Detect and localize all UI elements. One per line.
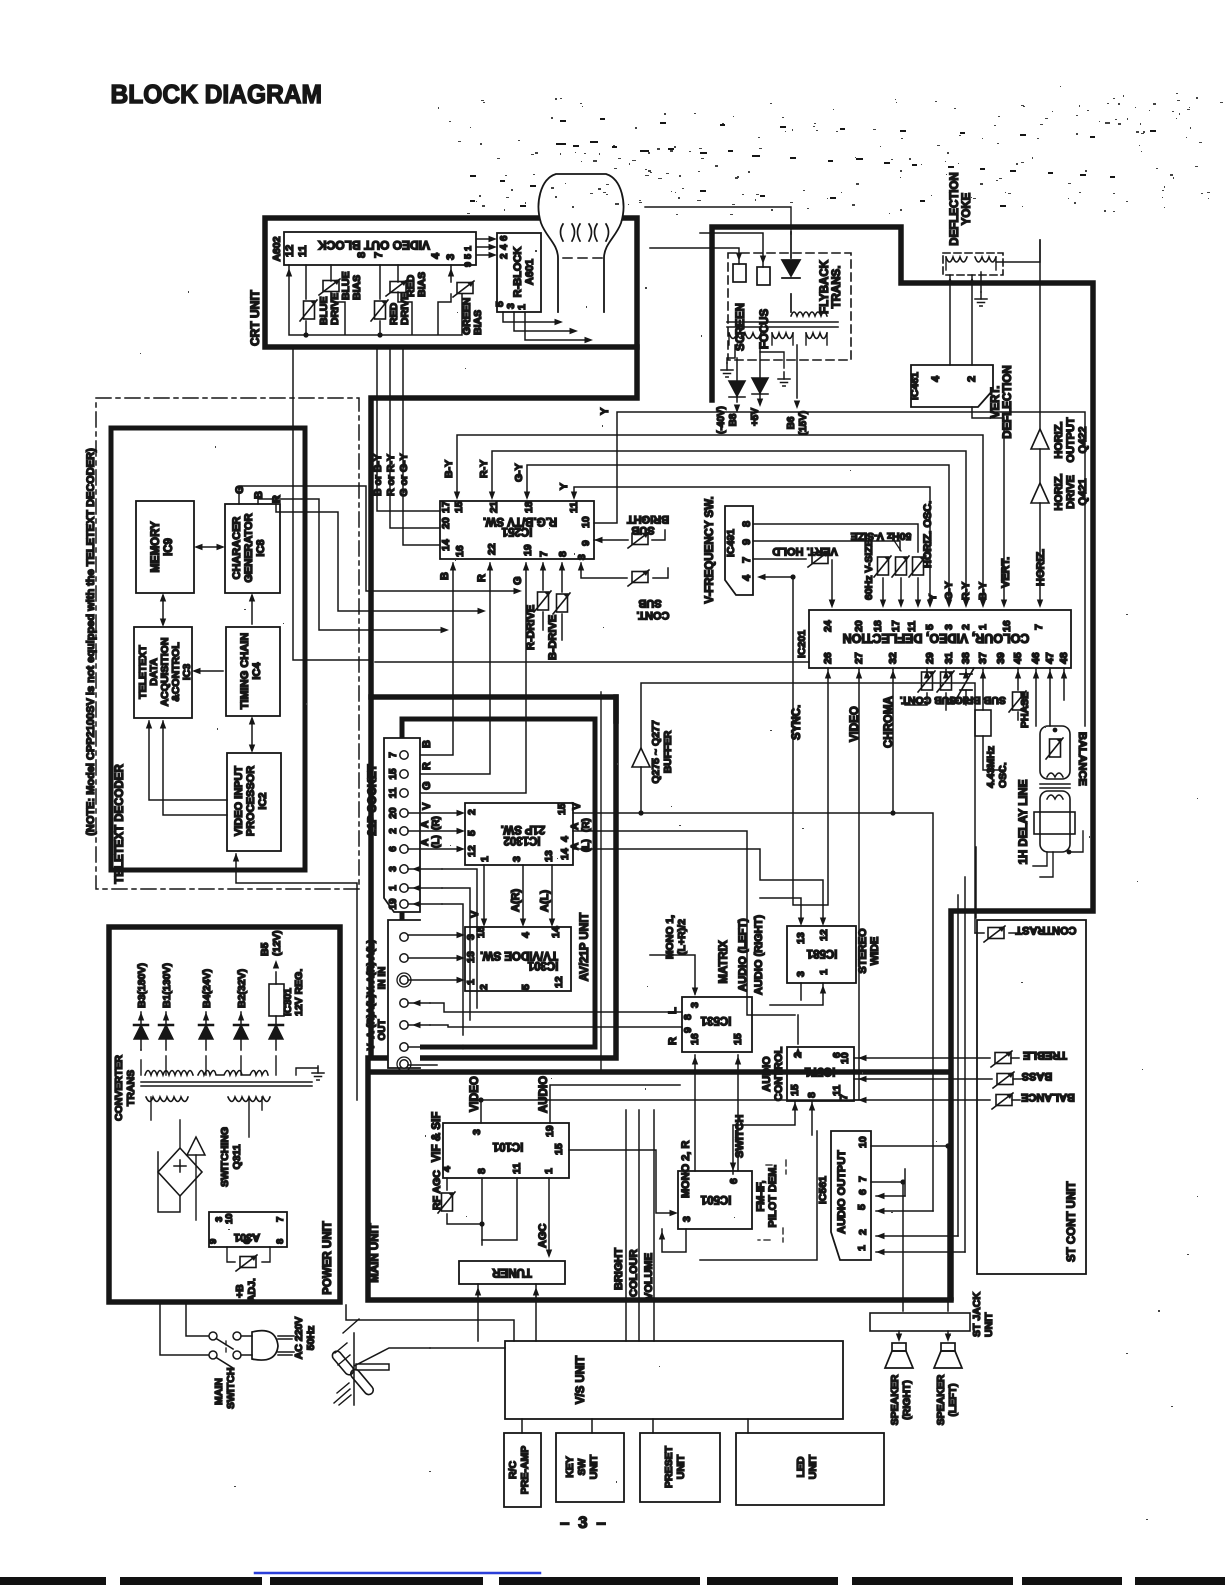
svg-text:39: 39: [995, 652, 1007, 664]
potentiometer HORIZ. OSC.: [909, 556, 926, 577]
wire into IC491 pin4 arrow from sync: [829, 600, 835, 609]
speaker right: [898, 1331, 900, 1336]
svg-text:V: V: [421, 802, 433, 810]
svg-text:MATRIX: MATRIX: [718, 940, 730, 984]
node 21P socket pin 2: [400, 827, 408, 835]
scan speckle noise top band: [140, 86, 1223, 1520]
svg-text:CHROMA: CHROMA: [883, 696, 895, 748]
svg-text:POWER UNIT: POWER UNIT: [322, 1221, 334, 1294]
svg-text:5: 5: [924, 624, 936, 630]
diode B3(180V): [140, 1012, 142, 1050]
wire Y IC251 pin11 to IC201 pin5: [574, 487, 930, 603]
svg-text:29: 29: [924, 652, 936, 664]
node 21P socket pin 1: [400, 884, 408, 892]
node AV out jack pin: [400, 1043, 408, 1051]
potentiometer BASS: [993, 1072, 1014, 1088]
wire AUDIO from IC101 pin19: [550, 1085, 680, 1123]
scan edge bottom black strip: [0, 1577, 1225, 1585]
svg-text:AUDIO: AUDIO: [761, 1056, 773, 1092]
svg-text:11: 11: [297, 245, 309, 257]
svg-text:DEFLECTION: DEFLECTION: [949, 172, 961, 245]
svg-text:15: 15: [553, 1143, 565, 1155]
svg-text:(R): (R): [431, 816, 442, 830]
svg-text:(15V): (15V): [798, 411, 809, 435]
svg-text:19: 19: [522, 544, 534, 556]
converter transformer windings: [145, 1071, 193, 1076]
wires socket feedback pins 3 1 19: [408, 869, 442, 904]
svg-text:IC9: IC9: [163, 538, 175, 556]
svg-text:12V REG.: 12V REG.: [293, 969, 305, 1016]
node 21P socket pin 3: [400, 865, 408, 873]
potentiometer CONTRAST: [975, 932, 1020, 934]
wire G or G-Y into IC251 left: [403, 347, 440, 545]
svg-text:+B: +B: [234, 1284, 246, 1298]
node AV out jack pin: [400, 976, 408, 984]
svg-text:G-Y: G-Y: [513, 463, 525, 482]
CRT tube drawing: [539, 174, 624, 312]
svg-text:9: 9: [682, 1027, 694, 1033]
potentiometer BALANCE: [992, 1093, 1013, 1109]
svg-text:MAIN UNIT: MAIN UNIT: [369, 1223, 381, 1282]
svg-text:VIF & SIF: VIF & SIF: [431, 1112, 443, 1162]
svg-text:IC491: IC491: [725, 529, 737, 557]
svg-text:VIDEO OUT BLOCK: VIDEO OUT BLOCK: [318, 238, 430, 252]
block IC561 AUDIO OUTPUT: [831, 1131, 871, 1260]
block IC101 VIF & SIF: [443, 1123, 569, 1178]
wire chargen G to IC251 G line: [239, 486, 517, 591]
wires video out block pins down to pots and bus: [289, 265, 462, 335]
block IC581 STEREO WIDE: [787, 926, 856, 983]
svg-text:R-Y: R-Y: [478, 460, 490, 478]
svg-text:1: 1: [479, 856, 491, 862]
svg-text:1: 1: [463, 246, 473, 251]
node 21P socket pin 15: [400, 770, 408, 778]
svg-text:21P SW.: 21P SW.: [501, 823, 546, 835]
svg-text:15: 15: [388, 768, 399, 780]
svg-text:B8: B8: [728, 413, 739, 426]
svg-text:– 3 –: – 3 –: [560, 1513, 608, 1532]
diode to B8: [736, 358, 738, 380]
diode B4(24V): [205, 1012, 207, 1050]
svg-text:TELETEXT DECODER: TELETEXT DECODER: [114, 764, 126, 884]
svg-text:2: 2: [857, 1229, 869, 1235]
svg-text:4: 4: [499, 244, 510, 250]
svg-text:A: A: [420, 839, 431, 846]
block V/S UNIT: [505, 1341, 843, 1419]
svg-text:HORIZ.: HORIZ.: [1053, 421, 1065, 458]
svg-text:45: 45: [1012, 652, 1024, 664]
wires IC571 bottom pins: [733, 1101, 812, 1174]
svg-text:10: 10: [224, 1213, 235, 1224]
svg-text:B or B-Y: B or B-Y: [372, 454, 384, 496]
svg-text:A: A: [420, 821, 431, 828]
svg-text:50Hz V-SIZE: 50Hz V-SIZE: [851, 530, 912, 542]
antenna: [354, 1333, 430, 1405]
svg-text:PRESET: PRESET: [663, 1445, 675, 1488]
svg-text:WIDE: WIDE: [869, 937, 881, 966]
svg-text:(L): (L): [431, 835, 442, 848]
block IC201 COLOUR, VIDEO, DEFLECTION: [809, 610, 1071, 668]
svg-text:HORIZ. OSC.: HORIZ. OSC.: [922, 501, 934, 568]
svg-text:13: 13: [795, 932, 807, 944]
svg-text:6: 6: [242, 1239, 253, 1244]
svg-text:20: 20: [853, 620, 865, 632]
svg-text:COLOUR, VIDEO, DEFLECTION: COLOUR, VIDEO, DEFLECTION: [843, 631, 1030, 645]
wire G-Y staircase IC251 pin18 to IC201 pin3: [527, 465, 949, 603]
svg-text:SUB: SUB: [631, 524, 654, 536]
svg-text:IC501: IC501: [700, 1193, 731, 1205]
svg-text:60Hz V-SIZE: 60Hz V-SIZE: [863, 539, 875, 600]
svg-text:IN IN: IN IN: [377, 967, 388, 990]
svg-text:R-DRIVE: R-DRIVE: [525, 605, 537, 650]
svg-text:7: 7: [857, 1176, 869, 1182]
block IC251 R.G.B/TV SW.: [440, 501, 594, 559]
svg-text:PRE-AMP: PRE-AMP: [519, 1446, 531, 1494]
svg-text:SPEAKER: SPEAKER: [935, 1374, 947, 1425]
svg-text:4: 4: [741, 574, 753, 581]
svg-text:AUDIO OUTPUT: AUDIO OUTPUT: [836, 1150, 848, 1234]
transistor Q421 HORIZ DRIVE amp: [1031, 483, 1049, 503]
svg-text:VERT. HOLD: VERT. HOLD: [772, 545, 837, 557]
svg-text:2: 2: [478, 984, 490, 990]
diode HV rectifier: [790, 232, 792, 312]
svg-text:14: 14: [440, 539, 452, 551]
wire timing chain to chargen arrow: [251, 596, 253, 624]
svg-text:TRANS.: TRANS.: [831, 266, 843, 309]
svg-text:DRIVE: DRIVE: [1065, 475, 1077, 509]
svg-text:47: 47: [1044, 652, 1056, 664]
transistor Q275-Q277 BUFFER: [641, 683, 975, 933]
svg-text:AUDIO: AUDIO: [538, 1076, 550, 1113]
block PRESET UNIT: [640, 1433, 720, 1502]
svg-text:IC8: IC8: [255, 539, 267, 556]
node AV out jack pin: [400, 933, 408, 941]
svg-text:BRIGHT: BRIGHT: [613, 1248, 625, 1290]
svg-text:PROCESSOR: PROCESSOR: [245, 766, 257, 836]
svg-text:AUDIO (RIGHT): AUDIO (RIGHT): [753, 915, 765, 995]
svg-text:BASS: BASS: [1022, 1070, 1053, 1082]
svg-text:4: 4: [559, 836, 571, 842]
wire R from AV unit to IC251 pin22: [403, 563, 490, 774]
potentiometer PHASE at IC201 pin45: [1017, 668, 1019, 720]
svg-text:B-Y: B-Y: [977, 582, 989, 600]
dashed outline: teletext option dash-dot box: [96, 398, 359, 889]
svg-text:48: 48: [1058, 652, 1070, 664]
wire timing chain to IC2 double arrow: [251, 719, 253, 750]
svg-text:B4(24V): B4(24V): [201, 969, 213, 1008]
svg-text:3: 3: [511, 856, 523, 862]
svg-text:12: 12: [466, 845, 478, 857]
node AV out jack pin: [400, 999, 408, 1007]
svg-text:(R): (R): [581, 818, 592, 832]
svg-text:1: 1: [818, 969, 830, 975]
svg-text:IC581: IC581: [806, 947, 837, 959]
svg-text:R-BLOCK: R-BLOCK: [512, 247, 524, 298]
wire IC101 pin15 to IC501: [569, 1150, 673, 1213]
wire B or B-Y into IC251 left: [377, 347, 440, 511]
svg-text:Y: Y: [599, 407, 611, 415]
svg-text:21: 21: [488, 501, 500, 513]
svg-text:HORIZ.: HORIZ.: [1053, 473, 1065, 510]
block MEMORY IC9: [136, 501, 194, 593]
svg-text:Q421: Q421: [1077, 479, 1089, 506]
svg-text:VIDEO INPUT: VIDEO INPUT: [233, 766, 245, 837]
wire V line from IC1302 right: [573, 813, 933, 1211]
bridge rectifier: [158, 1148, 202, 1196]
svg-text:SWITCH: SWITCH: [734, 1115, 746, 1158]
wire VIDEO from IC101 to IC201 pin27: [481, 668, 859, 1100]
block ST JACK UNIT: [870, 1313, 970, 1331]
svg-text:4: 4: [520, 932, 532, 938]
svg-text:1: 1: [543, 1168, 555, 1174]
svg-text:(NOTE: Model CPP2100SV is not: (NOTE: Model CPP2100SV is not equipped w…: [85, 448, 97, 836]
arrow to B6 (15V): [796, 345, 798, 398]
unit border: AV/21P ring: [371, 697, 616, 1058]
svg-text:2: 2: [792, 1052, 804, 1058]
block VIDEO INPUT PROCESSOR IC2: [227, 753, 281, 851]
svg-text:1: 1: [516, 304, 528, 310]
potentiometer RED DRIVE: [371, 300, 388, 321]
svg-text:3: 3: [388, 866, 399, 872]
svg-text:V: V: [571, 802, 583, 810]
svg-text:AC 220V: AC 220V: [293, 1317, 305, 1360]
ground converter: [312, 1066, 324, 1080]
svg-text:B: B: [421, 740, 433, 748]
svg-text:A601: A601: [524, 259, 536, 285]
svg-text:CONTRAST: CONTRAST: [1015, 924, 1076, 936]
wires IC201 pins 46 47 to delay line: [1036, 668, 1050, 726]
svg-text:R or R-Y: R or R-Y: [385, 454, 397, 496]
svg-text:18: 18: [523, 501, 535, 513]
svg-text:6: 6: [857, 1189, 869, 1195]
wires IC561 outputs to ST JACK: [871, 1146, 948, 1311]
wire HORIZ line with drive amps: [1039, 240, 1041, 603]
svg-text:Y: Y: [927, 594, 939, 601]
main switch: [160, 1302, 208, 1355]
svg-text:10: 10: [839, 1052, 851, 1064]
wires audio out lines: [408, 1003, 430, 1025]
wire EHT flyback to CRT: [645, 207, 791, 234]
svg-text:10: 10: [580, 516, 592, 528]
svg-text:12: 12: [284, 245, 296, 257]
wire IC491 pin9 to 50Hz V-SIZE pot: [753, 541, 900, 550]
potentiometer SUB CONT at IC251 pin3: [581, 563, 668, 578]
block AV out jack connector: [388, 920, 420, 1068]
wire IC491 pin8 to HORIZ OSC pot: [753, 524, 918, 552]
wire timing chain to IC3 arrow: [195, 670, 223, 672]
svg-text:11: 11: [388, 787, 399, 798]
svg-text:38: 38: [960, 652, 972, 664]
svg-text:7: 7: [388, 752, 399, 758]
block ST CONT UNIT: [977, 920, 1086, 1274]
wires into IC561 right pins: [876, 1196, 965, 1252]
wires IC2 to IC3: [149, 721, 227, 815]
wire B-Y staircase IC251 pin15 to IC201 pin1: [457, 435, 983, 603]
svg-text:3: 3: [576, 554, 588, 560]
svg-text:SW: SW: [576, 1458, 588, 1475]
flyback transformer windings: [791, 312, 827, 316]
svg-text:(12V): (12V): [271, 930, 283, 956]
svg-text:AUDIO (LEFT): AUDIO (LEFT): [737, 918, 749, 992]
svg-text:17: 17: [440, 501, 452, 513]
svg-text:18: 18: [872, 620, 884, 632]
wire R or R-Y into IC251 left: [390, 347, 440, 528]
potentiometer SUB BRIGT at IC201 pin31: [945, 668, 947, 710]
wire IC491 pin7 to VERT HOLD pot: [753, 558, 806, 560]
svg-text:ST CONT UNIT: ST CONT UNIT: [1066, 1182, 1078, 1263]
svg-text:B1(130V): B1(130V): [161, 963, 173, 1008]
svg-text:7: 7: [1033, 624, 1045, 630]
svg-text:2: 2: [966, 376, 978, 382]
block IC571 AUDIO CONTROL: [787, 1047, 854, 1101]
wires IC531 bottom pins MONO2 SWITCH: [695, 1055, 738, 1171]
svg-text:FLYBACK: FLYBACK: [819, 259, 831, 314]
svg-text:CONTROL: CONTROL: [773, 1047, 785, 1102]
potentiometer TREBLE: [991, 1051, 1012, 1067]
potentiometer 50Hz V-SIZE: [892, 556, 909, 577]
svg-text:8: 8: [806, 1092, 818, 1098]
svg-text:BIAS: BIAS: [416, 272, 428, 297]
audio section box: [700, 1131, 817, 1260]
svg-text:R: R: [271, 495, 283, 503]
svg-text:OUTPUT: OUTPUT: [1065, 417, 1077, 463]
svg-text:8: 8: [275, 1239, 286, 1244]
svg-text:+5V: +5V: [750, 408, 761, 426]
svg-text:V: V: [469, 910, 481, 918]
svg-text:BIAS: BIAS: [472, 310, 484, 335]
svg-text:9: 9: [580, 540, 592, 546]
svg-text:IC3: IC3: [181, 664, 193, 681]
svg-text:(LEFT): (LEFT): [947, 1383, 959, 1416]
node AV out jack pin: [400, 1060, 408, 1068]
svg-text:1: 1: [977, 624, 989, 630]
wire beam current from CRT unit: [293, 347, 371, 660]
wire video input to IC2: [236, 854, 357, 1100]
block A301: [209, 1212, 287, 1247]
svg-text:SUB BRIGT: SUB BRIGT: [948, 694, 1006, 706]
svg-text:V- A-(R)A(L)V. A(R) A(L): V- A-(R)A(L)V. A(R) A(L): [366, 940, 377, 1051]
svg-text:15: 15: [789, 1084, 801, 1096]
svg-text:SPEAKER: SPEAKER: [889, 1374, 901, 1425]
svg-text:IC1302: IC1302: [503, 834, 540, 846]
potentiometer R-DRIVE at IC251 pin7: [542, 563, 544, 630]
svg-text:2: 2: [499, 253, 510, 259]
svg-text:IC301: IC301: [527, 959, 558, 971]
wire CHROMA from IC201 pin32: [892, 668, 894, 813]
wire IC501 pin3 loop: [662, 1229, 686, 1252]
block A602 VIDEO OUT BLOCK: [284, 232, 476, 265]
wire MONO1 into IC531 pin3: [650, 955, 695, 994]
wires into screen and focus: [650, 233, 763, 267]
svg-text:11: 11: [906, 621, 918, 632]
block IC531 MATRIX: [682, 997, 752, 1052]
svg-text:ADJ.: ADJ.: [246, 1278, 258, 1302]
svg-text:10: 10: [857, 1136, 869, 1148]
block IC501 FM-IF PILOT DEM: [678, 1171, 752, 1229]
svg-text:15: 15: [732, 1033, 744, 1045]
svg-text:IC4: IC4: [251, 662, 263, 680]
svg-text:31: 31: [943, 652, 955, 664]
block LED UNIT: [736, 1433, 884, 1505]
svg-text:UNIT: UNIT: [807, 1454, 819, 1479]
unit border: CRT UNIT thick box: [265, 218, 637, 347]
svg-text:BALANCE: BALANCE: [1021, 1091, 1075, 1103]
svg-text:A(L): A(L): [539, 890, 551, 912]
svg-text:CHARACER: CHARACER: [231, 516, 243, 579]
svg-text:BLOCK DIAGRAM: BLOCK DIAGRAM: [111, 80, 322, 109]
wire long horizontal under IC201: [375, 661, 809, 663]
wire memory to chargen double arrow: [197, 546, 222, 548]
node 21P socket pin 6: [400, 845, 408, 853]
wires BRIGHT COLOUR VOLUME: [626, 1110, 654, 1341]
svg-text:R: R: [421, 762, 433, 770]
svg-text:COLOUR: COLOUR: [628, 1249, 640, 1297]
svg-text:15: 15: [453, 501, 465, 513]
potentiometer RED BIAS: [386, 280, 407, 296]
block TUNER: [459, 1261, 565, 1284]
svg-text:VOLUME: VOLUME: [643, 1253, 655, 1300]
unit border: AV/21P UNIT box: [402, 719, 595, 1047]
svg-text:8: 8: [356, 252, 368, 258]
potentiometer BLUE DRIVE: [300, 300, 317, 321]
svg-text:SYNC.: SYNC.: [791, 705, 803, 740]
svg-text:VIDEO: VIDEO: [469, 1076, 481, 1112]
1H delay line assembly with BALANCE pot: [1040, 726, 1070, 779]
svg-text:16: 16: [689, 1033, 701, 1045]
svg-text:8: 8: [557, 551, 569, 557]
svg-text:R/C: R/C: [507, 1461, 519, 1480]
svg-text:R: R: [476, 574, 488, 582]
block CHARACER GENERATOR IC8: [225, 504, 280, 593]
wires A602 to A601 with arrows: [477, 239, 492, 255]
ground flyback left: [721, 363, 733, 377]
svg-text:ST JACK: ST JACK: [971, 1292, 983, 1337]
svg-text:OSC.: OSC.: [997, 762, 1009, 788]
svg-text:TIMING CHAIN: TIMING CHAIN: [239, 633, 251, 709]
svg-text:IC461: IC461: [909, 372, 921, 400]
svg-text:15: 15: [475, 926, 487, 938]
svg-text:12: 12: [553, 976, 565, 988]
svg-text:11: 11: [511, 1163, 523, 1174]
potentiometer SUB BRIGHT at IC251 pin9: [594, 530, 665, 540]
potentiometer RF AGC: [447, 1178, 482, 1245]
svg-text:16: 16: [1001, 620, 1013, 632]
potentiometer GREEN BIAS: [453, 281, 474, 297]
svg-text:7: 7: [838, 1094, 850, 1100]
svg-text:2: 2: [960, 624, 972, 630]
svg-text:BRIGHT: BRIGHT: [627, 513, 669, 525]
svg-text:7: 7: [538, 551, 550, 557]
wire IC491 pin4 from junction: [761, 576, 793, 578]
svg-text:BALANCE: BALANCE: [1076, 732, 1088, 786]
wire AGC IC101 pin1 to tuner: [548, 1178, 550, 1255]
blue pen underline bottom left: [255, 1572, 540, 1575]
svg-text:TREBLE: TREBLE: [1023, 1049, 1067, 1061]
svg-text:3: 3: [681, 1216, 693, 1222]
svg-text:(L): (L): [581, 839, 592, 852]
svg-text:VIDEO: VIDEO: [849, 706, 861, 742]
svg-text:5: 5: [466, 830, 478, 836]
svg-text:SUB CONT.: SUB CONT.: [900, 694, 957, 706]
wire vertical beside AV unit: [600, 692, 602, 1072]
block IC491 V-FREQUENCY SW.: [725, 506, 753, 595]
svg-text:6: 6: [388, 846, 399, 852]
wires IC581 pins: [760, 898, 823, 1005]
svg-text:3: 3: [795, 971, 807, 977]
svg-text:B: B: [253, 491, 265, 499]
svg-text:GENERATOR: GENERATOR: [243, 513, 255, 582]
svg-text:SWITCH: SWITCH: [225, 1368, 237, 1409]
